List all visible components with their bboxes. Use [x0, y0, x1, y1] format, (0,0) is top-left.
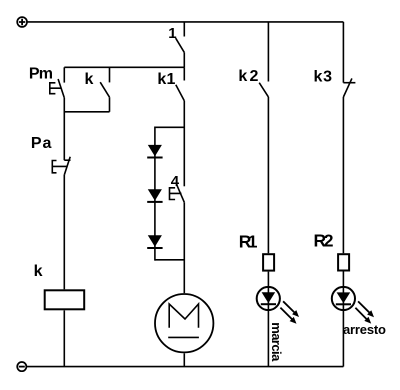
svg-text:arresto: arresto — [343, 322, 386, 337]
wire diode branch vertical — [154, 127, 156, 261]
svg-text:k: k — [34, 263, 43, 280]
contact k2 (NO) — [259, 22, 268, 97]
contact 4 (NO limit switch with actuator) — [170, 185, 185, 203]
wire Pa to coil k — [63, 175, 65, 290]
resistor R2 — [338, 254, 349, 270]
svg-text:k1: k1 — [157, 71, 175, 88]
diode D2 — [147, 189, 162, 202]
resistor R1 — [263, 254, 274, 270]
LED D5 (arresto lamp) — [332, 287, 374, 324]
svg-text:R1: R1 — [239, 232, 258, 252]
svg-text:k: k — [85, 71, 94, 88]
pushbutton Pm (NO start button) — [50, 67, 65, 97]
LED D4 (marcia lamp) — [257, 287, 299, 324]
wire k1 to contact 4 — [183, 101, 185, 187]
wire top rail — [28, 21, 344, 23]
svg-text:marcia: marcia — [269, 322, 284, 362]
terminal - (negative supply) — [17, 362, 26, 371]
contact k (NO, holding contact parallel to Pm) — [100, 67, 109, 112]
svg-text:1: 1 — [168, 25, 176, 42]
wire bottom rail — [27, 366, 343, 368]
svg-text:R2: R2 — [314, 231, 334, 251]
wire k3 to R2 — [342, 97, 344, 253]
contact k1 (NO) — [176, 67, 185, 100]
svg-text:Pa: Pa — [31, 135, 52, 152]
relay coil k — [45, 290, 84, 309]
wire LED1 to bottom rail — [267, 311, 269, 367]
svg-text:k2: k2 — [238, 68, 258, 85]
svg-text:4: 4 — [171, 173, 180, 190]
wire bottom of k parallel branch — [64, 111, 109, 113]
wire diode branch bottom connector — [155, 259, 184, 261]
diode D3 — [147, 235, 162, 248]
wire Pm to Pa — [63, 98, 65, 161]
wire motor to bottom rail — [183, 353, 185, 366]
wire LED2 to bottom rail — [342, 311, 344, 367]
svg-text:k3: k3 — [314, 69, 333, 86]
wire coil k to bottom rail — [63, 310, 65, 366]
pushbutton Pa (NC stop button) — [52, 157, 70, 175]
wire diode branch top connector — [155, 126, 184, 128]
wire k2 to R1 — [267, 97, 269, 253]
wire second row (node between contact 1 and k1, to Pm branch) — [64, 66, 184, 68]
motor M1 — [155, 294, 213, 352]
terminal + (positive supply) — [17, 17, 27, 27]
svg-text:Pm: Pm — [29, 65, 53, 82]
wire contact 4 to motor — [183, 202, 185, 293]
contact k3 (NC) — [343, 22, 355, 97]
diode D1 — [147, 145, 162, 158]
wire R1 to LED1 — [267, 272, 269, 287]
contact 1 (NO contact on main branch) — [176, 22, 185, 67]
wire R2 to LED2 — [342, 272, 344, 288]
